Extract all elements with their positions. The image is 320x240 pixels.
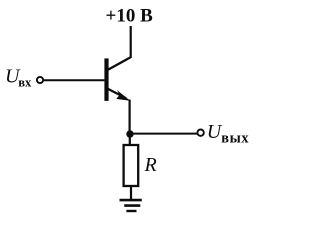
wire: node down to resistor [129,134,131,145]
svg-text:вх: вх [18,76,32,90]
wire: input terminal to base [44,79,105,81]
transistor VT1 emitter lead with arrow [108,89,131,101]
transistor VT1 collector lead [108,57,131,70]
transistor VT1 base bar [104,58,108,101]
input terminal circle [37,77,43,83]
ground symbol [120,200,142,211]
output terminal circle [197,130,203,136]
wire: node to output terminal [130,133,197,135]
node junction dot [126,130,133,137]
svg-text:вых: вых [221,130,249,146]
resistor R body [124,145,139,186]
wire: resistor to ground [130,186,132,199]
svg-text:R: R [144,154,157,176]
svg-text:+10 В: +10 В [106,6,154,27]
wire: emitter down to output node [129,100,131,134]
label U_in [5,66,32,90]
label U_out [207,121,250,147]
wire: +10V rail down to collector [130,26,132,58]
